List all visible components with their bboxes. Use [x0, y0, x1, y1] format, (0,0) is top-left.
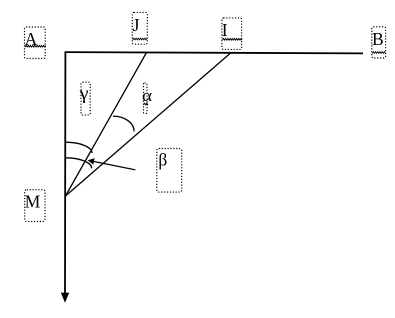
label box alpha [142, 83, 153, 114]
label box beta [157, 149, 182, 193]
svg-text:J: J [133, 15, 140, 35]
svg-text:α: α [142, 86, 153, 105]
svg-text:B: B [372, 29, 384, 49]
beta pointer line [94, 162, 135, 170]
beta angle arc [66, 158, 92, 169]
label box M [25, 190, 45, 222]
label box I [222, 18, 242, 50]
alpha angle arc [113, 116, 134, 131]
beta pointer arrowhead [88, 158, 95, 165]
svg-text:γ: γ [79, 84, 89, 104]
arrowhead bottom [61, 293, 69, 303]
label box B [372, 27, 386, 58]
ray M to J [66, 53, 147, 197]
svg-text:β: β [158, 149, 167, 169]
svg-text:M: M [25, 192, 41, 212]
gamma angle arc [65, 142, 92, 153]
label box J [132, 12, 147, 44]
svg-text:I: I [222, 20, 228, 40]
vertical line through M with bottom arrow [64, 52, 66, 294]
label box A [25, 27, 46, 59]
label box gamma [79, 82, 91, 115]
horizontal line AB [65, 52, 363, 53]
ray M to I [66, 53, 231, 196]
